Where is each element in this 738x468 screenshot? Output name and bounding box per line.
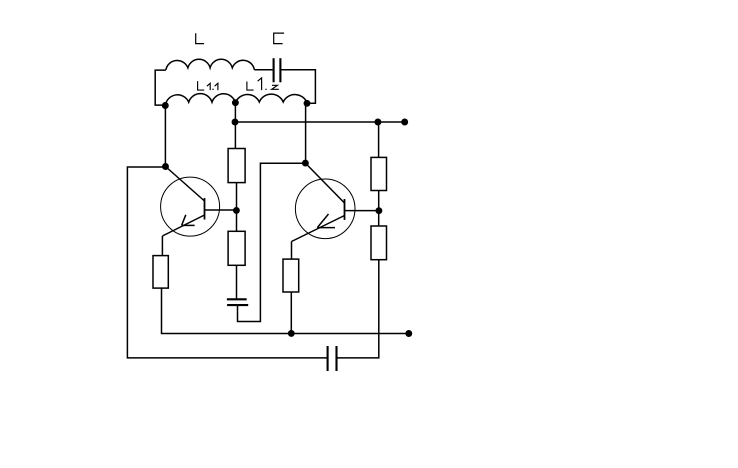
transistor Q2 [292,163,356,241]
wire R3 to C2 [236,265,238,299]
capacitor C3 [328,346,337,371]
wire supply to R2 [378,122,380,157]
inductor L [166,59,255,69]
resistor R6 [283,259,299,292]
wire tank left loop [155,70,166,105]
inductor L1.2 [235,94,307,103]
node supply left [232,119,237,124]
terminal supply top [402,119,407,124]
resistor R3 [228,231,245,265]
capacitor C2 [227,299,248,305]
node Q1 base [163,164,168,169]
wire center tap down to R1 [234,103,236,149]
resistor R4 [371,226,387,260]
resistor R2 [371,157,387,190]
wire L1.1 left end down to Q1 base node [164,105,166,166]
label L1.1 [198,81,218,90]
terminal bottom right [406,331,411,336]
inductor L1.1 [165,94,235,106]
transistor Q1 [161,167,220,237]
wire R2 to R4 [378,191,380,227]
wire C1 to tank right loop [282,70,316,103]
resistor R1 [228,149,245,183]
node Q2 collector [376,208,381,213]
wire Q1 collector [205,209,237,211]
wire L to C1 [254,69,272,71]
capacitor C1 [274,58,281,82]
wire Q1 emitter to R5 [161,236,163,256]
emitter bottom line [162,288,409,333]
node L1.2 right [304,101,309,106]
wire R1 to R3 [236,183,238,232]
wire Q2 collector [345,210,379,212]
resistor R5 [153,256,168,289]
bottom feedback line, left riser and Q1 base wire [127,167,327,358]
label L1.2 [247,78,279,90]
wire C2 to right riser and Q2 base wire [238,163,306,321]
wire R6 down [290,292,292,334]
label C [274,33,284,44]
node L1.1 left [163,103,168,108]
node supply right [375,119,380,124]
wire L1.2 right end down to Q2 base node [305,103,307,163]
wire Q2 rail down and bottom line right [337,260,379,358]
node R6 bottom [289,331,294,336]
node Q2 base [303,160,308,165]
node Q1 collector [234,208,239,213]
supply line top [235,121,405,123]
wire Q2 emitter to R6 [291,242,293,260]
label L [196,33,204,43]
node center tap [233,100,238,105]
